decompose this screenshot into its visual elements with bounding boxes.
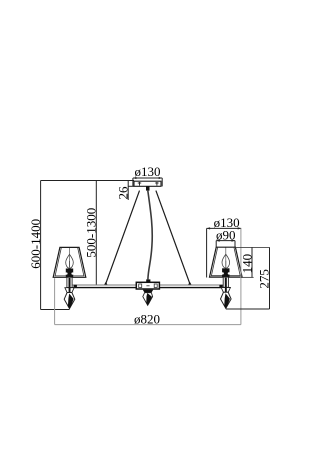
dimension 26 (canopy height) <box>128 181 134 201</box>
right lamp <box>210 247 243 308</box>
extension line shade bottom (to 140) <box>241 276 254 278</box>
dimension line 140 <box>251 247 253 277</box>
arrowheads ⌀130 canopy <box>133 177 137 179</box>
ceiling reference line <box>41 180 134 182</box>
crystal drop left <box>64 293 75 309</box>
dimension line ⌀820 (gray) <box>55 324 241 326</box>
rod foot left <box>104 282 108 286</box>
left lamp <box>53 247 86 308</box>
dimension line ⌀130 (canopy) <box>133 178 162 186</box>
stem rod through cup left <box>69 288 71 293</box>
filament left <box>69 261 71 267</box>
hub center mark <box>146 285 149 287</box>
socket pip right a <box>222 272 224 274</box>
socket pip left b <box>71 272 73 274</box>
stem tube left <box>67 277 72 287</box>
suspension rod right <box>156 191 190 284</box>
hub bracket left <box>139 284 142 288</box>
crystal dark core left <box>68 294 74 309</box>
socket pip right b <box>228 272 230 274</box>
candle cup right <box>221 288 230 293</box>
dimension line 275 <box>269 247 271 309</box>
lampshade left outer <box>53 247 86 277</box>
shade axis right <box>225 247 227 268</box>
canopy plate <box>134 181 161 186</box>
socket left <box>66 269 73 278</box>
rod foot right <box>188 282 192 286</box>
socket right <box>222 268 229 277</box>
stem rod left <box>69 278 71 288</box>
arm bar top edge <box>71 284 225 286</box>
canopy screw right <box>155 182 158 186</box>
svg-text:ø130: ø130 <box>135 164 161 179</box>
stem tube right <box>223 277 228 287</box>
svg-text:ø820: ø820 <box>134 312 160 327</box>
extension line shade top (to 140/275) <box>235 246 269 248</box>
lampshade right outer <box>210 247 243 277</box>
finial neck <box>143 290 154 293</box>
arrowheads ⌀90 <box>216 240 220 242</box>
socket pip left a <box>65 272 67 274</box>
extension line crystal tip (to 275) <box>226 308 270 310</box>
crystal drop right <box>221 292 232 308</box>
power cable (S-curve) <box>148 191 152 280</box>
crystal dark core right <box>224 293 230 308</box>
candle cup left <box>65 288 74 293</box>
bottom extension line (600-1400 to crystal tip) <box>41 309 70 311</box>
dimension line ⌀90 <box>216 241 235 248</box>
svg-text:275: 275 <box>257 269 272 289</box>
central hub body <box>136 282 159 289</box>
dimension line 600-1400 <box>40 181 42 310</box>
dimension line ⌀130 (right lamp) <box>207 228 242 277</box>
svg-text:600-1400: 600-1400 <box>28 219 43 269</box>
shade axis left <box>69 247 71 268</box>
extension line shade right edge (gray, to 820 line) <box>240 228 242 324</box>
stem rod through cup right <box>225 287 227 292</box>
lampshade right inner wall <box>211 248 240 276</box>
bulb flame left <box>66 254 74 268</box>
lampshade left inner wall <box>55 248 84 276</box>
dimension line 500-1300 <box>95 181 97 286</box>
extension line left shade edge (gray, to 820 line) <box>54 278 56 324</box>
arm setscrew right <box>219 285 222 288</box>
svg-text:140: 140 <box>239 254 254 273</box>
canopy cable gland knob <box>146 186 150 190</box>
svg-text:500-1300: 500-1300 <box>84 208 99 258</box>
filament right <box>225 261 227 267</box>
arrowheads ⌀130 right <box>207 227 211 229</box>
hub bracket right <box>154 284 157 288</box>
bulb flame right <box>222 254 230 268</box>
stem rod right <box>225 278 227 288</box>
svg-text:26: 26 <box>116 186 131 200</box>
finial crystal <box>143 293 153 306</box>
canopy screw left <box>138 182 141 186</box>
central hub knob <box>146 279 150 282</box>
suspension rod left <box>106 191 140 284</box>
finial dark core <box>146 293 152 305</box>
arm bar bottom edge <box>71 287 225 289</box>
arm setscrew left <box>74 285 77 288</box>
